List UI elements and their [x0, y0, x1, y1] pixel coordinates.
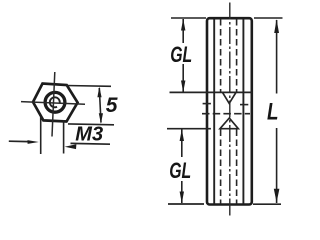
top GL dimension line lower — [182, 64, 184, 92]
dimension 5 dimension line — [99, 88, 101, 123]
svg-text:GL: GL — [170, 42, 192, 67]
top thread hidden line left — [220, 19, 222, 92]
bottom extension line (GL/L base) — [168, 203, 204, 205]
bottom GL dimension line upper — [181, 130, 183, 158]
bottom thread hidden line left — [220, 130, 222, 204]
svg-text:5: 5 — [106, 94, 118, 117]
dimension 5 arrow down — [99, 113, 103, 123]
bottom drill point cone — [220, 118, 238, 129]
bottom GL arrow down — [180, 192, 184, 204]
dimension 5 top extension line — [66, 85, 111, 88]
dimension 5 arrow up — [97, 87, 101, 98]
thread major circle — [45, 92, 65, 112]
L arrow down — [274, 189, 280, 203]
thread minor circle — [50, 97, 60, 107]
bottom drill depth dashed line — [202, 113, 250, 115]
M3 left arrow tail — [9, 140, 29, 142]
top thread end line / GL extension — [170, 91, 253, 93]
top GL extension line — [171, 17, 206, 19]
M3 left arrow head — [28, 140, 39, 144]
hex edge line left (side view) — [213, 19, 215, 204]
horizontal centerline (end view) — [21, 102, 85, 105]
M3 left extension line — [40, 117, 42, 154]
top thread hidden line right — [236, 19, 238, 92]
top GL dimension line upper — [182, 19, 184, 43]
svg-text:GL: GL — [169, 158, 191, 183]
vertical centerline (end view) — [52, 72, 55, 137]
M3 right arrow head — [65, 144, 77, 149]
vertical centerline (side view) — [229, 3, 231, 218]
svg-text:L: L — [267, 98, 279, 125]
hexagon outline (hex body end view) — [33, 84, 78, 122]
bottom thread end line / GL extension — [167, 128, 211, 130]
L arrow up — [274, 19, 279, 33]
top GL arrow down — [181, 81, 185, 93]
hex edge line right (side view) — [242, 19, 244, 204]
M3 label underline / leader — [71, 142, 111, 145]
top drill depth tick right — [240, 104, 248, 106]
top L extension line — [254, 17, 283, 19]
svg-text:M3: M3 — [75, 124, 103, 146]
bottom extension line right of body — [253, 203, 281, 205]
L dimension line upper — [276, 20, 278, 94]
bottom thread hidden line right — [236, 130, 238, 204]
bottom GL arrow up — [180, 129, 184, 141]
M3 right extension line — [63, 120, 65, 154]
standoff body outline (side view) — [207, 18, 252, 204]
L dimension line lower — [276, 128, 278, 203]
top GL arrow up — [181, 19, 185, 31]
dimension 5 bottom extension line — [68, 123, 114, 126]
bottom GL dimension line lower — [181, 181, 183, 203]
top drill depth tick left — [203, 103, 211, 105]
top drill point cone — [223, 93, 236, 104]
